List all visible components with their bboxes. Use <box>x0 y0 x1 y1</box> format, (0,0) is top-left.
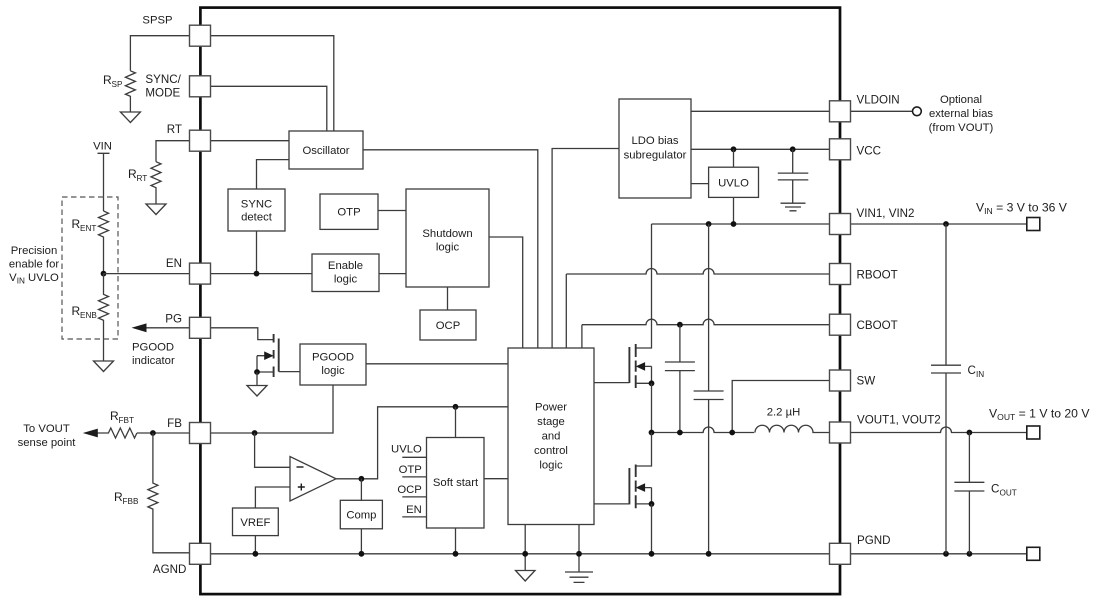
svg-text:FB: FB <box>167 417 182 430</box>
junction UVLO top <box>731 146 737 152</box>
wire Q3 gate to PGOOD logic <box>279 371 300 373</box>
junction Q1 source/body <box>649 380 655 386</box>
wire soft start output to power stage <box>484 478 508 480</box>
pin UVLO input of soft start <box>391 444 426 458</box>
svg-text:SPSP: SPSP <box>142 15 172 27</box>
junction comp ground <box>359 551 365 557</box>
svg-text:C: C <box>991 483 999 496</box>
IC module boundary <box>200 8 840 595</box>
RFBB value label <box>114 490 139 506</box>
svg-text:RT: RT <box>167 123 182 136</box>
svg-text:PG: PG <box>165 312 182 325</box>
svg-text:Shutdown: Shutdown <box>422 228 472 240</box>
svg-text:SW: SW <box>857 375 876 388</box>
svg-text:C: C <box>968 364 976 377</box>
enable logic block <box>312 254 379 292</box>
wire LDO to VLDOIN pin <box>691 110 830 112</box>
wire PGND external <box>851 553 1027 555</box>
junction internal cap top <box>706 221 712 227</box>
junction EN node <box>254 271 260 277</box>
junction soft start top node <box>453 404 459 410</box>
svg-text:(from VOUT): (from VOUT) <box>929 122 994 134</box>
pin EN <box>190 263 211 284</box>
svg-text:logic: logic <box>436 242 460 254</box>
svg-text:Power: Power <box>535 401 567 413</box>
junction Q2 source/body <box>649 501 655 507</box>
wire soft start to AGND <box>455 528 457 554</box>
svg-text:UVLO: UVLO <box>718 177 749 189</box>
svg-text:stage: stage <box>537 416 565 428</box>
junction internal cap bottom <box>706 551 712 557</box>
svg-text:RBOOT: RBOOT <box>857 268 898 281</box>
shutdown logic block <box>406 189 489 287</box>
junction COUT top <box>967 430 973 436</box>
svg-text:EN: EN <box>406 504 422 516</box>
junction power stage ground B <box>576 551 582 557</box>
resistor RFBT <box>97 428 137 438</box>
junction FB internal node <box>252 430 258 436</box>
svg-text:VIN: VIN <box>93 141 112 153</box>
svg-text:IN: IN <box>976 370 984 379</box>
capacitor COUT <box>954 433 984 554</box>
capacitor VCC bypass <box>778 149 809 203</box>
wire comp stub <box>360 479 362 501</box>
wire VLDOIN external <box>851 110 913 112</box>
RSP value label <box>103 73 123 89</box>
wire FB internal to PGOOD logic <box>211 385 334 433</box>
junction EN divider node <box>101 271 107 277</box>
resistor RSP <box>125 71 135 112</box>
wire VCC net <box>691 148 830 150</box>
pin SW <box>830 370 851 391</box>
RRT value label <box>128 167 147 183</box>
pin FB <box>190 423 211 444</box>
OTP block <box>320 194 378 229</box>
wire EN internal <box>211 273 313 275</box>
svg-text:logic: logic <box>321 365 345 377</box>
wire SPSP to oscillator <box>211 36 334 131</box>
junction VCC cap <box>790 146 796 152</box>
wire OTP to shutdown logic <box>378 210 406 212</box>
oscillator block <box>289 131 363 169</box>
pin OCP input of soft start <box>397 484 426 497</box>
COUT value label <box>991 483 1017 498</box>
svg-text:RT: RT <box>137 174 148 183</box>
svg-text:FBT: FBT <box>119 416 134 425</box>
resistor RENB <box>99 274 109 361</box>
wire SPSP external to RSP <box>130 36 189 71</box>
svg-text:VLDOIN: VLDOIN <box>857 94 900 107</box>
wire SYNC detect to EN net <box>256 231 258 274</box>
ground (below RENB) <box>94 361 114 372</box>
wire FB external <box>137 432 190 434</box>
pin SYNC/MODE label <box>145 73 181 100</box>
wire shutdown logic to OCP <box>447 287 449 310</box>
junction FB divider node <box>150 430 156 436</box>
wire Q1 gate <box>594 382 629 384</box>
svg-text:To VOUT: To VOUT <box>23 423 70 435</box>
svg-text:OCP: OCP <box>436 320 460 332</box>
LDO bias subregulator block <box>619 99 691 198</box>
wire EN external <box>104 273 190 275</box>
svg-text:SP: SP <box>112 80 123 89</box>
power stage block <box>508 348 594 525</box>
svg-text:VREF: VREF <box>240 517 270 529</box>
wire Q1 source to SW node <box>651 383 653 432</box>
wire SW/VOUT internal node with hop <box>652 427 755 432</box>
resistor RFBB <box>148 433 190 553</box>
junction CBOOT cap bottom <box>677 430 683 436</box>
note: optional external bias <box>929 94 994 134</box>
svg-text:ENB: ENB <box>80 311 97 320</box>
svg-text:VOUT1, VOUT2: VOUT1, VOUT2 <box>857 413 941 426</box>
wire VIN internal net <box>652 223 830 225</box>
wire VREF to non-inverting input <box>255 487 290 508</box>
junction CBOOT cap top <box>677 322 683 328</box>
soft start block <box>427 438 485 529</box>
wire error amp output <box>336 407 508 479</box>
svg-text:Comp: Comp <box>346 510 376 522</box>
svg-text:enable for: enable for <box>9 259 59 271</box>
pin RT <box>190 130 211 151</box>
wire RT external <box>156 141 190 162</box>
ground (earth, VCC cap) <box>781 203 806 211</box>
svg-text:MODE: MODE <box>145 86 180 99</box>
PGOOD indicator label <box>132 342 175 368</box>
junction CIN top <box>943 221 949 227</box>
junction comp node <box>359 476 365 482</box>
pin SYNC/MODE <box>190 76 211 97</box>
svg-text:Oscillator: Oscillator <box>302 145 349 157</box>
transistor Q2 low-side FET <box>629 433 651 509</box>
svg-text:SYNC: SYNC <box>241 198 272 210</box>
ground (earth, power) <box>565 572 593 582</box>
wire comp to AGND <box>360 529 362 554</box>
inductor L1 2.2uH <box>755 425 830 432</box>
svg-text:EN: EN <box>166 257 182 270</box>
svg-text:VIN UVLO: VIN UVLO <box>9 272 59 286</box>
wire enable logic to shutdown logic <box>379 273 406 275</box>
wire SW pin branch <box>732 381 829 433</box>
svg-text:Precision: Precision <box>11 245 57 257</box>
svg-text:UVLO: UVLO <box>391 444 422 456</box>
wire PGOOD logic to power stage <box>366 363 508 365</box>
terminal VOUT <box>1027 426 1040 439</box>
ground (signal, below power stage) <box>516 571 536 582</box>
wire AGND/PGND rail <box>211 553 830 555</box>
svg-text:Soft start: Soft start <box>433 477 479 489</box>
wire PG to Q3 drain <box>211 328 274 340</box>
SYNC detect block <box>228 189 285 231</box>
pin VCC <box>830 139 851 160</box>
pin AGND <box>190 543 211 564</box>
capacitor VIN internal bypass <box>694 224 724 554</box>
wire CBOOT net with hops <box>582 319 830 348</box>
wire VIN to RENT <box>98 153 110 211</box>
transistor Q1 high-side FET <box>629 224 651 388</box>
svg-text:Enable: Enable <box>328 260 363 272</box>
VREF block <box>233 508 279 536</box>
svg-text:detect: detect <box>241 211 273 223</box>
ground (Q3 source) <box>247 372 267 396</box>
pin VOUT1, VOUT2 <box>830 422 851 443</box>
capacitor CBOOT <box>665 325 695 433</box>
wire RT to oscillator <box>211 140 290 142</box>
svg-text:external bias: external bias <box>929 108 993 120</box>
svg-text:subregulator: subregulator <box>624 150 687 162</box>
svg-text:OTP: OTP <box>337 207 360 219</box>
pin PG <box>190 317 211 338</box>
wire SYNC/MODE to oscillator <box>211 86 327 131</box>
PGOOD logic block <box>300 344 366 385</box>
terminal PGND <box>1027 547 1040 560</box>
junction Q1 source on SW node <box>649 430 655 436</box>
svg-text:indicator: indicator <box>132 355 175 367</box>
svg-text:OTP: OTP <box>399 464 422 476</box>
pin CBOOT <box>830 314 851 335</box>
svg-text:SYNC/: SYNC/ <box>145 73 181 86</box>
wire LDO to power stage top <box>552 149 619 349</box>
resistor RENT <box>99 211 109 274</box>
svg-text:ENT: ENT <box>80 224 96 233</box>
CIN value label <box>968 364 985 379</box>
svg-text:and: and <box>542 430 561 442</box>
pin VLDOIN <box>830 101 851 122</box>
ground (below RRT) <box>146 204 166 215</box>
capacitor CIN <box>931 224 961 554</box>
svg-text:PGOOD: PGOOD <box>312 352 354 364</box>
pin RBOOT <box>830 264 851 285</box>
wire VREF to AGND <box>254 536 256 554</box>
wire Q2 source to PGND <box>651 504 653 554</box>
comp block <box>340 500 382 529</box>
OCP block <box>420 310 476 340</box>
junction Q3 source <box>254 369 260 375</box>
pin SPSP <box>190 25 211 46</box>
svg-text:LDO bias: LDO bias <box>631 135 678 147</box>
svg-text:control: control <box>534 445 568 457</box>
pin OTP input of soft start <box>399 464 427 477</box>
junction SW branch <box>729 430 735 436</box>
svg-text:logic: logic <box>539 459 563 471</box>
UVLO block <box>709 167 759 197</box>
svg-text:CBOOT: CBOOT <box>857 319 898 332</box>
RENT value label <box>72 217 97 233</box>
junction VREF ground <box>253 551 259 557</box>
ground (below RSP) <box>120 112 140 123</box>
RENB value label <box>72 304 98 320</box>
wire power stage ground stub B <box>578 525 580 573</box>
junction Q2 source on PGND rail <box>649 551 655 557</box>
wire VIN external <box>851 223 1027 225</box>
note: precision enable text <box>9 245 59 286</box>
wire Q2 gate <box>594 503 629 505</box>
terminal VLDOIN bias circle <box>913 107 922 116</box>
junction COUT bottom <box>967 551 973 557</box>
wire UVLO top stub <box>733 149 735 167</box>
svg-text:sense point: sense point <box>18 437 77 449</box>
wire UVLO to VIN net <box>733 197 735 224</box>
junction CIN bottom <box>943 551 949 557</box>
arrow PGOOD indicator <box>132 323 147 332</box>
junction soft start ground <box>453 551 459 557</box>
wire PG indicator <box>145 327 190 329</box>
svg-text:FBB: FBB <box>123 497 139 506</box>
wire oscillator to power stage top <box>363 150 538 348</box>
svg-text:VIN1, VIN2: VIN1, VIN2 <box>857 207 915 220</box>
note: to VOUT sense point <box>18 423 77 449</box>
pin VIN1, VIN2 <box>830 214 851 235</box>
wire LDO to UVLO <box>691 183 709 185</box>
svg-text:logic: logic <box>334 274 358 286</box>
svg-text:Optional: Optional <box>940 94 982 106</box>
dashed precision-enable outline <box>62 197 118 339</box>
svg-text:OUT: OUT <box>1000 489 1017 498</box>
wire FB to error amp inverting input <box>255 433 290 467</box>
wire RBOOT net with hops <box>566 269 829 349</box>
svg-text:OCP: OCP <box>397 484 421 496</box>
wire soft start top stub <box>455 407 457 438</box>
pin EN input of soft start <box>402 504 426 517</box>
arrow to VOUT sense point <box>83 429 98 438</box>
junction UVLO bottom <box>731 221 737 227</box>
junction power stage ground A <box>522 551 528 557</box>
svg-text:PGND: PGND <box>857 534 891 547</box>
terminal VIN <box>1027 218 1040 231</box>
wire power stage ground stub A <box>524 525 526 571</box>
resistor RRT <box>151 162 161 204</box>
RFBT value label <box>110 409 134 425</box>
svg-text:VCC: VCC <box>857 145 881 158</box>
pin PGND <box>830 543 851 564</box>
svg-text:AGND: AGND <box>153 563 187 576</box>
svg-text:PGOOD: PGOOD <box>132 342 174 354</box>
wire VOUT external with hop over CIN <box>851 427 1027 432</box>
transistor Q3 PGOOD open-drain FET <box>257 334 279 377</box>
svg-text:2.2 µH: 2.2 µH <box>767 407 801 419</box>
wire oscillator to SYNC detect <box>257 160 290 189</box>
wire shutdown logic to power stage <box>489 237 523 348</box>
op-amp U1 error amplifier <box>290 457 336 502</box>
